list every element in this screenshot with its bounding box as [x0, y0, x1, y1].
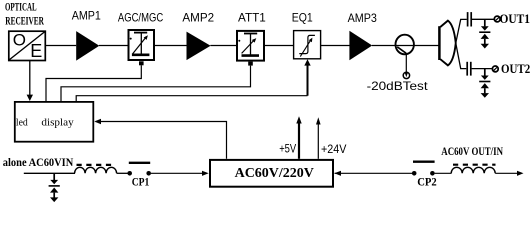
arrow into power box left	[202, 171, 209, 176]
svg-text:RECEIVER: RECEIVER	[5, 14, 44, 28]
choke L1 core dashes	[77, 164, 116, 166]
wire AGC feedback to led display	[46, 65, 141, 101]
capacitor C-OUT1	[468, 12, 472, 26]
wire power box to CP2	[335, 172, 413, 174]
svg-text:OUT1: OUT1	[500, 11, 530, 26]
connector CP2	[412, 162, 435, 176]
connector CP1	[127, 163, 151, 176]
wire O/E to AMP1	[46, 45, 77, 47]
directional coupler circle	[396, 35, 414, 55]
wire splitter to OUT1 branch	[456, 19, 467, 43]
wire AMP3 to splitter through coupler	[372, 45, 439, 47]
choke L2 core dashes	[453, 164, 496, 166]
svg-text:led: led	[16, 116, 28, 128]
terminal OUT1	[494, 16, 500, 22]
wire CP2 to choke L2	[435, 172, 452, 174]
surge protector on AC60VIN line	[49, 173, 60, 202]
inductor L2	[451, 167, 495, 173]
amplifier AMP2	[187, 32, 211, 60]
wire ATT1 feedback to led display	[61, 66, 251, 101]
svg-text:CP2: CP2	[417, 175, 437, 189]
svg-text:alone AC60VIN: alone AC60VIN	[3, 155, 74, 169]
surge protector under OUT1	[479, 19, 490, 48]
amplifier AMP1	[76, 31, 99, 60]
wire CP1 to power box	[151, 172, 207, 174]
wire AMP2 to ATT1	[210, 45, 236, 47]
svg-text:E: E	[30, 41, 42, 61]
amplifier AMP3	[349, 31, 372, 61]
svg-text:+5V: +5V	[279, 142, 296, 156]
node: AGC bottom connection square	[139, 61, 144, 65]
wire capacitor to OUT1 terminal	[472, 18, 494, 20]
capacitor C-OUT2	[467, 62, 471, 76]
arrow AC60V OUT/IN right end	[517, 171, 524, 176]
attenuator ATT1 box	[237, 31, 264, 61]
led display box	[15, 102, 94, 142]
power supply box AC60V/220V	[210, 160, 333, 187]
svg-text:O: O	[13, 30, 26, 49]
splitter	[439, 21, 455, 66]
arrow into power box right	[334, 171, 341, 176]
test point circle	[403, 72, 409, 78]
svg-text:ATT1: ATT1	[238, 10, 266, 24]
arrow into EQ1 bottom	[304, 59, 310, 65]
svg-text:+24V: +24V	[321, 142, 346, 156]
wire AGC/MGC to AMP2	[155, 45, 187, 47]
equalizer EQ1 box	[294, 31, 321, 59]
svg-text:AGC/MGC: AGC/MGC	[118, 10, 164, 24]
svg-text:AC60V/220V: AC60V/220V	[235, 166, 314, 181]
attenuator AGC/MGC box	[129, 30, 155, 60]
arrow into led display right	[94, 119, 101, 124]
wire O/E down to led display	[29, 61, 31, 97]
wire AC60VIN to choke L1	[24, 172, 75, 174]
svg-text:display: display	[41, 116, 74, 128]
svg-text:AMP1: AMP1	[72, 9, 101, 23]
wire capacitor to OUT2 terminal	[472, 68, 493, 70]
inductor L1	[75, 167, 117, 173]
wire EQ1 to AMP3	[321, 45, 350, 47]
svg-text:CP1: CP1	[132, 174, 150, 188]
svg-text:EQ1: EQ1	[292, 10, 313, 24]
svg-text:AMP3: AMP3	[348, 11, 378, 25]
node: ATT1 bottom connection square	[248, 62, 253, 66]
svg-text:AMP2: AMP2	[182, 10, 214, 24]
wire splitter to OUT2 branch	[456, 43, 467, 68]
optical receiver O/E box	[9, 30, 46, 61]
arrow into led display top	[27, 95, 33, 101]
svg-text:-20dBTest: -20dBTest	[367, 79, 429, 93]
wire from power supply to led display	[96, 122, 227, 159]
+5V supply line	[298, 122, 300, 159]
terminal OUT2	[492, 66, 498, 72]
svg-text:OPTICAL: OPTICAL	[5, 0, 37, 14]
wire L2 to output arrow	[495, 172, 521, 174]
wire EQ1 feedback to led display	[307, 62, 309, 96]
wire ATT1 to EQ1	[264, 45, 294, 47]
svg-text:OUT2: OUT2	[501, 61, 530, 76]
wire L1 to CP1	[117, 172, 128, 174]
test point arrow	[405, 72, 408, 77]
+24V supply line	[317, 123, 319, 159]
wire AMP1 to AGC/MGC	[99, 45, 128, 47]
wire coupler to test point	[405, 54, 407, 74]
surge protector under OUT2	[479, 69, 490, 98]
svg-text:AC60V OUT/IN: AC60V OUT/IN	[441, 144, 503, 158]
